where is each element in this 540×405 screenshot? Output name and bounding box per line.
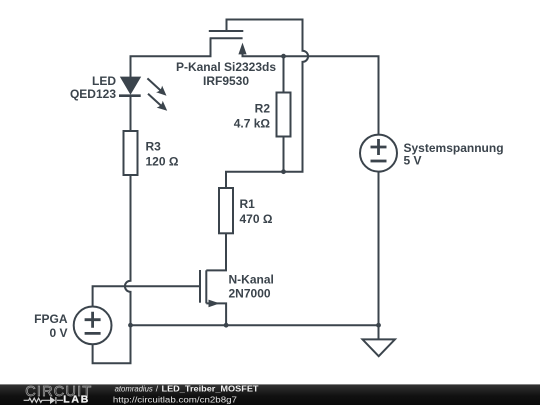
svg-text:QED123: QED123	[70, 87, 116, 101]
svg-text:470 Ω: 470 Ω	[240, 212, 273, 226]
svg-text:http://circuitlab.com/cn2b8g7: http://circuitlab.com/cn2b8g7	[113, 394, 237, 404]
svg-text:R3: R3	[146, 140, 162, 154]
svg-text:LAB: LAB	[63, 394, 90, 405]
svg-text:5 V: 5 V	[404, 154, 422, 168]
svg-text:N-Kanal: N-Kanal	[229, 273, 274, 287]
svg-text:4.7 kΩ: 4.7 kΩ	[234, 117, 271, 131]
svg-text:atomradius: atomradius	[115, 383, 154, 393]
svg-text:FPGA: FPGA	[34, 312, 68, 326]
svg-text:R1: R1	[240, 197, 256, 211]
svg-text:2N7000: 2N7000	[229, 286, 271, 300]
svg-text:P-Kanal Si2323ds: P-Kanal Si2323ds	[176, 60, 276, 74]
svg-text:0 V: 0 V	[49, 326, 67, 340]
svg-text:LED_Treiber_MOSFET: LED_Treiber_MOSFET	[162, 383, 260, 393]
svg-text:LED: LED	[92, 74, 116, 88]
svg-text:IRF9530: IRF9530	[203, 74, 249, 88]
svg-text:120 Ω: 120 Ω	[146, 155, 179, 169]
svg-text:R2: R2	[255, 102, 271, 116]
